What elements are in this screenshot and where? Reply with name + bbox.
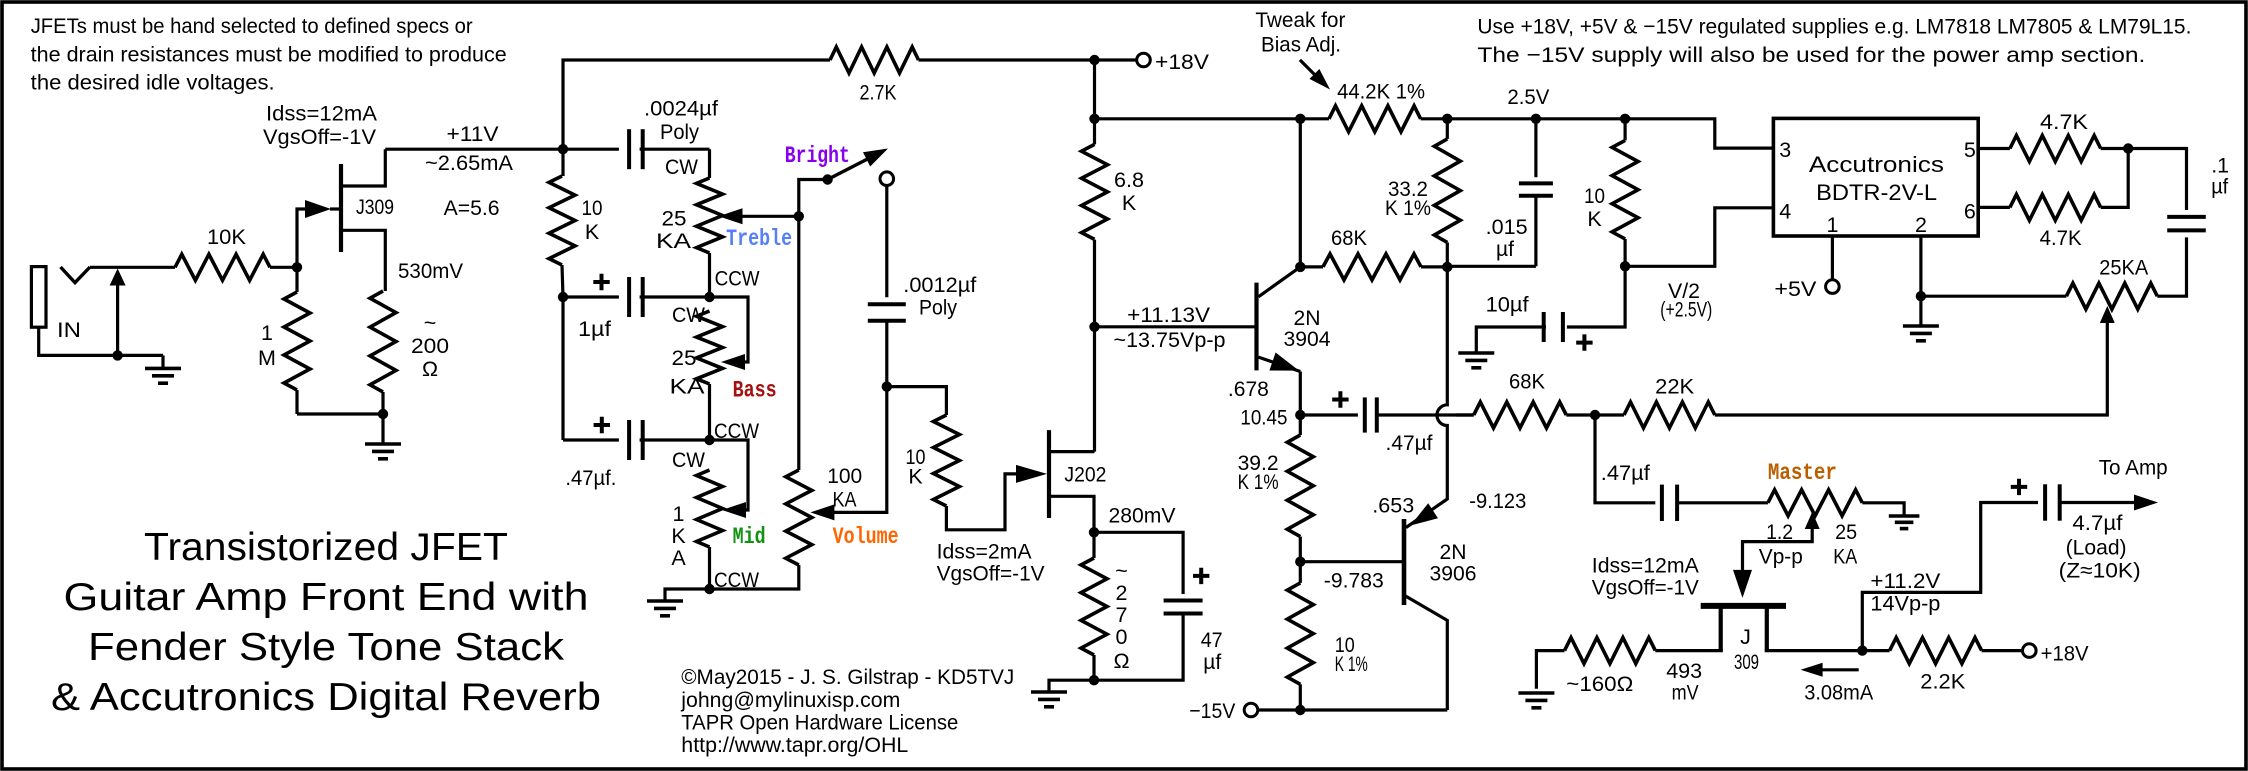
ground (source resistor) [365,414,401,459]
svg-text:VgsOff=-1V: VgsOff=-1V [937,562,1046,586]
wire top rail right [1447,119,1773,148]
node .015 top [1531,114,1541,124]
svg-text:Mid: Mid [733,524,766,550]
wire to .47uf master [1595,415,1655,503]
node gate J309 [292,262,302,272]
svg-text:BDTR-2V-L: BDTR-2V-L [1816,180,1937,205]
resistor 2.7K [830,47,919,105]
svg-text:(Load): (Load) [2066,536,2127,560]
svg-text:Ω: Ω [1113,649,1129,673]
label 2N3906 [1430,540,1477,586]
svg-text:-9.123: -9.123 [1469,489,1526,513]
svg-text:~160Ω: ~160Ω [1566,672,1633,696]
IC U1 Accutronics BDTR-2V-L box [1773,118,1978,236]
potentiometer Treble 25KA [697,149,723,297]
title block [51,526,601,719]
svg-text:14Vp-p: 14Vp-p [1870,592,1940,616]
svg-text:6: 6 [1964,200,1976,224]
node 280mV [1089,527,1099,537]
svg-text:68K: 68K [1509,370,1546,394]
arrow input sense [110,269,126,356]
svg-text:Bass: Bass [733,378,777,404]
resistor 10K (V/2) [1584,119,1638,266]
resistor ~200 ohm source [370,291,449,414]
svg-text:.653: .653 [1372,493,1414,517]
svg-text:10K: 10K [207,225,247,249]
wire 2.7K to +18V node [919,58,1138,61]
svg-text:6.8: 6.8 [1114,168,1144,192]
resistor 39.2K 1% [1238,415,1314,562]
svg-text:KA: KA [1833,544,1858,568]
svg-text:10: 10 [582,196,603,220]
svg-text:Volume: Volume [833,524,899,550]
svg-text:10.45: 10.45 [1240,406,1287,430]
pin 2 label [1915,213,1927,237]
resistor 22K [1595,374,1715,428]
arrow 3.08mA current [1801,663,1874,705]
svg-text:K 1%: K 1% [1335,652,1368,676]
node source bottom [378,409,388,419]
svg-text:.0012µf: .0012µf [903,273,976,297]
svg-text:VgsOff=-1V: VgsOff=-1V [263,125,377,149]
transistor Q2 2N3904 collector [1258,267,1300,297]
label .678 10.45 [1228,377,1288,430]
svg-text:A=5.6: A=5.6 [444,196,500,220]
wire drain to tone node [385,148,563,151]
label .653 [1372,493,1414,517]
resistor 10K (J202 gate) [906,415,1018,530]
svg-text:A: A [671,546,686,570]
transistor Q2 2N3904 emitter [1258,353,1300,416]
transistor Q2 2N3904 base bar [1254,283,1258,371]
ground (input jack) [145,355,181,383]
transistor Q3 2N3906 base wire [1300,560,1402,563]
note: JFET selection note (top left) [31,14,507,95]
svg-text:.015: .015 [1486,215,1528,239]
input jack IN [31,267,90,342]
svg-text:200: 200 [411,334,449,358]
node 68K/22K [1590,410,1600,420]
node base 2N3906 [1295,557,1305,567]
wire tone bottom to ground [665,589,710,601]
wire V/2 to pin4 [1625,208,1773,266]
capacitor .1uf [2128,149,2229,231]
svg-text:.0024µf: .0024µf [644,97,718,121]
svg-text:280mV: 280mV [1109,504,1177,528]
svg-text:25KA: 25KA [2099,256,2149,280]
node tone bottom [704,584,714,594]
label 100 KA volume [827,464,862,512]
transistor Q3 2N3906 base bar [1402,519,1407,605]
ground (tone stack) [647,601,683,616]
node emitter 2N3904 [1295,410,1305,420]
label 1 K A mid [671,502,686,570]
note: copyright block [680,665,1014,757]
svg-text:1µf: 1µf [578,317,611,341]
wire main vertical top [1093,60,1096,119]
wire treble wiper up [799,180,828,217]
terminal +18V [1137,50,1210,74]
label 280mV [1109,504,1177,528]
svg-text:2N: 2N [1440,540,1467,564]
svg-text:−15V: −15V [1189,699,1236,723]
label 25 KA bass [670,346,706,399]
svg-text:309: 309 [1734,650,1759,674]
svg-text:JFETs must be hand selected to: JFETs must be hand selected to defined s… [31,14,473,38]
resistor 4.7K (pin5) [1978,110,2128,162]
svg-text:Guitar Amp Front End with: Guitar Amp Front End with [64,576,589,619]
pin 3 label [1779,138,1791,162]
svg-text:.47µf: .47µf [1601,461,1650,485]
wire 22K to 25KA wiper [1715,321,2108,415]
wire .015 bottom [1447,265,1536,268]
capacitor .47uf (reverb send) [1300,391,1473,432]
svg-text:©May2015 - J. S. Gilstrap - K: ©May2015 - J. S. Gilstrap - KD5TVJ [681,665,1014,689]
label +11.2V 14Vp-p [1870,569,1941,616]
node 33.2K top [1442,114,1452,124]
arrow J202 gate [1016,465,1047,483]
terminal -15V [1189,699,1257,723]
arrow gate J309 right [1733,570,1752,598]
svg-text:493: 493 [1666,659,1702,683]
svg-text:K 1%: K 1% [1238,470,1279,494]
svg-text:~: ~ [1115,559,1128,583]
capacitor .47uf tone [563,417,710,490]
svg-text:.678: .678 [1228,377,1269,401]
switch Bright blade [828,149,888,180]
svg-text:2: 2 [1116,581,1128,605]
wire J202 drain vertical [1093,327,1096,452]
svg-text:Ω: Ω [422,357,438,381]
resistor 33.2K 1% [1385,119,1460,267]
label CW treble [665,155,699,179]
label +11.13V [1114,303,1226,352]
svg-text:Fender Style Tone Stack: Fender Style Tone Stack [88,626,565,669]
svg-text:http://www.tapr.org/OHL: http://www.tapr.org/OHL [681,733,908,757]
svg-text:3: 3 [1779,138,1791,162]
svg-text:5: 5 [1964,138,1976,162]
label J202 [1064,462,1106,486]
node +18V rail [1089,55,1099,65]
svg-text:+11.13V: +11.13V [1127,303,1211,327]
svg-text:Bias Adj.: Bias Adj. [1261,33,1341,57]
svg-text:Treble: Treble [726,226,792,252]
svg-text:Poly: Poly [660,120,699,144]
svg-text:Bright: Bright [785,143,850,169]
junction input sleeve [112,350,122,360]
node mid top [704,435,714,445]
wire up to 2.7K rail [563,60,830,149]
svg-text:+18V: +18V [2041,641,2090,665]
node pin2 ground [1916,291,1926,301]
ground (master) [1889,516,1920,529]
svg-text:J202: J202 [1064,462,1106,486]
JFET J202 source lead [1051,496,1095,532]
wire top rail [1095,117,1301,120]
JFET Q1 J309 drain lead [343,149,385,186]
resistor 6.8K [1082,119,1145,327]
arrow bias adj [1300,60,1330,90]
svg-text:25: 25 [672,346,697,370]
wiper bass bracket [710,297,749,370]
svg-text:47: 47 [1201,628,1223,652]
label Idss VgsOff (J202) [937,539,1046,585]
wiper treble [719,208,799,224]
svg-text:4.7µf: 4.7µf [2072,511,2122,535]
node V/2 [1620,261,1630,271]
label J309 [356,195,394,219]
wire -15V rail [1257,708,1447,711]
svg-text:Master: Master [1768,460,1837,486]
terminal +5V [1774,277,1839,301]
svg-text:johng@mylinuxisp.com: johng@mylinuxisp.com [680,688,900,712]
label Mid [733,524,766,550]
svg-text:The −15V supply will also be u: The −15V supply will also be used for th… [1477,43,2145,67]
svg-text:2.2K: 2.2K [1920,670,1966,694]
wiper master [1743,512,1820,570]
svg-text:25: 25 [662,207,687,231]
node 10K top [1620,114,1630,124]
svg-text:KA: KA [833,488,858,512]
pin 1 label [1827,213,1839,237]
label CW bass [672,303,706,327]
node treble wiper [794,211,804,221]
pin 2 wire [1919,236,1922,296]
svg-text:10: 10 [1584,184,1605,208]
resistor 10K (input) [175,225,270,280]
svg-text:µf: µf [2211,175,2228,199]
note: power supply note (top right) [1477,15,2191,68]
svg-text:1.2: 1.2 [1766,520,1793,544]
svg-text:1: 1 [673,502,685,526]
node base 2N3904 [1089,322,1099,332]
label 493 mV [1666,659,1702,705]
svg-text:K: K [1122,191,1137,215]
ground (pin 2) [1903,296,1939,341]
svg-text:~: ~ [424,311,437,335]
label 4.7uf Load [2059,511,2141,583]
svg-text:3.08mA: 3.08mA [1804,681,1874,705]
potentiometer 25KA reverb [1921,237,2187,309]
resistor 1M [258,267,310,414]
node 1uf left [558,292,568,302]
svg-text:CW: CW [665,155,699,179]
potentiometer Volume 100KA [710,216,812,589]
svg-text:+11.2V: +11.2V [1870,569,1941,593]
label .47uf (send) [1386,431,1433,455]
svg-text:2: 2 [1915,213,1927,237]
svg-text:2.7K: 2.7K [860,81,898,105]
ground (10uf) [1458,353,1494,368]
label Master [1768,460,1837,486]
transistor Q2 2N3904 base wire [1095,325,1256,328]
label Idss VgsOff (J309 right) [1592,554,1700,600]
label 2N3904 [1284,306,1331,351]
resistor 2.2K [1862,638,2023,694]
JFET Q4 J309 channel bar [1701,603,1786,609]
capacitor .0012uf poly [868,185,977,387]
svg-text:Vp-p: Vp-p [1759,544,1803,568]
label J 309 [1734,625,1759,674]
svg-text:4.7K: 4.7K [2040,110,2089,134]
label CCW bass [714,419,760,443]
svg-text:1: 1 [1827,213,1839,237]
label CCW treble [715,267,761,291]
ground (J202 source) [1031,680,1094,707]
resistor 10K slope [549,149,603,297]
capacitor .015uf [1486,119,1553,266]
svg-text:IN: IN [57,318,81,342]
svg-text:530mV: 530mV [398,259,464,283]
switch Bright throw terminal [880,172,894,186]
resistor 44.2K 1% [1300,80,1447,132]
transistor Q3 2N3906 collector [1406,596,1448,710]
potentiometer Bass 25KA [697,311,723,440]
svg-text:+5V: +5V [1774,277,1817,301]
node bass top [704,292,714,302]
label Volume [833,524,899,550]
svg-text:100: 100 [827,464,862,488]
label Idss VgsOff (J309 left) [263,102,378,150]
svg-text:Idss=2mA: Idss=2mA [937,539,1033,563]
capacitor 1uf [563,274,710,341]
wire 10K to gate node [270,266,297,269]
svg-text:Use +18V, +5V & −15V regulated: Use +18V, +5V & −15V regulated supplies … [1477,15,2191,39]
capacitor .47uf (master) [1601,461,1768,521]
JFET Q1 J309 channel bar [339,164,343,252]
resistor 68K (send) [1456,370,1595,429]
node 33.2K bottom [1442,262,1452,272]
resistor 4.7K (pin6) [1978,149,2128,250]
label +11V node [425,122,514,220]
node drain +11V [558,144,568,154]
svg-text:3904: 3904 [1284,327,1331,351]
svg-text:Transistorized JFET: Transistorized JFET [144,526,508,569]
label CCW mid [714,568,760,592]
svg-text:J: J [1740,625,1751,649]
svg-text:2.5V: 2.5V [1507,85,1550,109]
label Bass [733,378,777,404]
svg-text:the desired idle voltages.: the desired idle voltages. [31,71,275,95]
transistor Q3 2N3906 emitter [1406,267,1447,528]
svg-text:the drain resistances must be: the drain resistances must be modified t… [31,43,507,67]
svg-text:& Accutronics Digital Reverb: & Accutronics Digital Reverb [51,676,601,719]
svg-text:M: M [258,346,276,370]
svg-text:(Z≈10K): (Z≈10K) [2059,558,2141,582]
svg-text:4.7K: 4.7K [2040,226,2083,250]
svg-text:µf: µf [1496,237,1514,261]
pin 1 wire [1831,236,1834,280]
node collector 2N3904 [1295,262,1305,272]
potentiometer Mid 1KA [697,470,723,589]
pin 6 label [1964,200,1976,224]
svg-text:K: K [1587,207,1602,231]
JFET Q1 J309 source lead [343,230,385,291]
svg-text:(+2.5V): (+2.5V) [1660,298,1712,322]
wire 1M bottom to source node [297,412,383,415]
svg-text:4: 4 [1779,200,1791,224]
label V/2 [1660,279,1712,322]
wire tone left rail [561,297,564,440]
svg-text:µf: µf [1203,650,1221,674]
node -15V [1295,705,1305,715]
arrow 25KA wiper [2100,306,2115,323]
svg-text:K: K [671,524,686,548]
JFET J202 channel bar [1047,430,1051,518]
capacitor 4.7uf output [2011,479,2158,521]
svg-text:K 1%: K 1% [1385,196,1431,220]
label 25 KA master [1833,520,1858,568]
svg-text:KA: KA [670,375,706,399]
wire output step [1862,503,2038,651]
svg-text:mV: mV [1672,681,1700,705]
svg-text:~13.75Vp-p: ~13.75Vp-p [1114,328,1226,352]
svg-text:Accutronics: Accutronics [1809,152,1944,177]
label -9.123 [1469,489,1526,513]
svg-text:+11V: +11V [447,122,500,146]
svg-text:To Amp: To Amp [2099,455,2168,479]
svg-text:10µf: 10µf [1486,293,1529,317]
label -9.783 [1324,568,1384,592]
node output source [1857,645,1867,655]
label Treble [726,226,792,252]
svg-text:CW: CW [672,448,706,472]
node cap .0012 bottom [882,381,892,391]
wire gate feed 10K [887,387,947,415]
svg-text:-9.783: -9.783 [1324,568,1384,592]
svg-text:Tweak for: Tweak for [1255,8,1345,32]
wiper mid bracket [710,440,749,518]
svg-text:22K: 22K [1655,374,1695,398]
wire collector vertical [1299,119,1302,267]
svg-text:3906: 3906 [1430,562,1477,586]
svg-text:CCW: CCW [715,267,761,291]
svg-text:Idss=12mA: Idss=12mA [1592,554,1700,578]
resistor ~270 ohm [1081,532,1130,680]
node 44.2K left [1295,114,1305,124]
node 4.7K join [2123,143,2133,153]
JFET J202 drain lead [1051,450,1095,453]
svg-text:1: 1 [261,321,273,345]
svg-text:J309: J309 [356,195,394,219]
label CW mid [672,448,706,472]
svg-text:Idss=12mA: Idss=12mA [266,102,378,126]
JFET Q1 J309 gate wire [297,200,341,267]
node top rail left [1089,114,1099,124]
svg-text:44.2K 1%: 44.2K 1% [1337,80,1425,104]
capacitor .0024uf poly [563,97,718,170]
svg-text:KA: KA [656,229,692,253]
terminal +18V (output) [2023,641,2090,665]
label 2.5V [1507,85,1550,109]
node 270 bottom [1089,675,1099,685]
ground (~160) [1518,693,1554,708]
potentiometer Master 25KA [1768,490,1904,516]
label Tweak for Bias Adj [1255,8,1345,56]
svg-text:7: 7 [1116,603,1128,627]
resistor ~160 ohm [1536,638,1655,696]
pin 5 label [1964,138,1976,162]
svg-text:0: 0 [1116,625,1128,649]
wire jack sleeve [39,327,163,355]
switch Bright pole [822,174,832,184]
JFET Q4 J309 left lead [1655,606,1723,651]
svg-text:+18V: +18V [1155,50,1210,74]
svg-text:VgsOff=-1V: VgsOff=-1V [1592,575,1700,599]
JFET Q4 J309 right lead [1765,606,1863,651]
label 25 KA treble [656,207,692,253]
svg-text:Poly: Poly [919,296,957,320]
